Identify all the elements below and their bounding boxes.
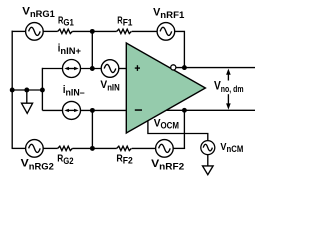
- wire: top rail, left corner to VnRG1: [12, 30, 26, 32]
- resistor RG2: [58, 146, 73, 150]
- wire: RG2 to RF2: [72, 147, 116, 149]
- op-amp U1 fully differential amplifier: [126, 43, 205, 133]
- node: +input node: [90, 66, 95, 71]
- svg-text:F1: F1: [123, 18, 133, 28]
- wire: RG1 to RF1: [72, 30, 116, 32]
- svg-text:nRF1: nRF1: [160, 9, 184, 20]
- svg-text:no, dm: no, dm: [221, 84, 244, 94]
- voltage noise source VnIN: [101, 60, 119, 78]
- wire: VnIN to amp +input: [119, 68, 127, 70]
- label VOCM: [154, 118, 179, 131]
- label inIN-: [63, 84, 85, 97]
- node: RG2/RF2 junction: [90, 146, 95, 151]
- wire: VnRG1 to RG1: [43, 30, 58, 32]
- svg-text:nIN+: nIN+: [60, 46, 81, 56]
- label VnCM: [220, 141, 243, 154]
- svg-text:G1: G1: [63, 18, 73, 28]
- wire: non-inverted output line: [166, 109, 255, 111]
- wire: RF1 to VnRF1: [132, 30, 157, 32]
- svg-text:nCM: nCM: [227, 144, 244, 154]
- noise source VnCM: [201, 141, 215, 155]
- annotation: Vno,dm up arrow: [226, 69, 231, 81]
- wire: VnRF2 to feedback vertical: [173, 147, 185, 149]
- svg-text:nIN: nIN: [107, 83, 120, 93]
- wire: bottom rail, left corner to VnRG2: [12, 147, 26, 149]
- svg-text:G2: G2: [63, 156, 73, 166]
- node: bus middle junction: [24, 88, 29, 93]
- op-amp - input marker: [135, 109, 142, 111]
- ground (VnCM): [203, 166, 214, 175]
- label inIN+: [58, 42, 81, 56]
- label VnRF1: [153, 7, 184, 21]
- current noise source inIN+: [63, 60, 81, 78]
- wire: inIN+ left lead: [42, 68, 62, 70]
- wire: inverted output line: [176, 67, 255, 69]
- ground (input bias network): [22, 90, 33, 113]
- resistor RF1: [117, 29, 132, 33]
- svg-text:F2: F2: [123, 155, 133, 165]
- svg-text:nRF2: nRF2: [159, 161, 184, 172]
- label VnRF2: [151, 158, 184, 172]
- label RG1: [58, 14, 74, 27]
- output inversion bubble: [171, 65, 176, 70]
- node: -output feedback junction: [182, 65, 187, 70]
- wire: VnRF1 right, corner down to -output: [175, 31, 185, 67]
- svg-text:OCM: OCM: [161, 120, 180, 130]
- svg-text:nIN–: nIN–: [66, 87, 85, 97]
- node: bus left junction: [10, 88, 15, 93]
- wire: feedback from +output down to VnRF2: [183, 110, 185, 148]
- wire: RF2 to VnRF2: [132, 147, 156, 149]
- label VnIN: [100, 79, 119, 93]
- node: top feedback junction: [90, 29, 95, 34]
- noise source VnRG1: [26, 23, 44, 41]
- wire: input bias vertical (left column): [41, 68, 43, 111]
- wire: top junction down to +input node: [91, 31, 93, 68]
- label Vno,dm: [214, 80, 244, 94]
- label VnRG1: [22, 6, 55, 20]
- svg-text:nRG1: nRG1: [30, 8, 55, 19]
- node: -input node: [90, 108, 95, 113]
- label RF1: [117, 14, 132, 27]
- label RG2: [57, 153, 73, 166]
- op-amp + input marker: [135, 65, 140, 71]
- wire: left vertical bus: [11, 31, 13, 149]
- wire: inIN- right lead to amp -input: [81, 109, 127, 111]
- wire: VnRG2 to RG2: [43, 147, 58, 149]
- resistor RF2: [117, 146, 132, 150]
- node: +output feedback junction: [182, 108, 187, 113]
- wire: ground bus: [12, 89, 42, 91]
- noise source VnRF1: [157, 23, 175, 41]
- node: bus right junction: [40, 88, 45, 93]
- label VnRG2: [21, 158, 54, 172]
- wire: -input node down to RG2/RF2 junction: [91, 110, 93, 148]
- annotation: Vno,dm down arrow: [226, 94, 231, 109]
- noise source VnRG2: [26, 140, 44, 158]
- resistor RG1: [58, 29, 73, 33]
- wire: VnCM to ground: [207, 155, 209, 166]
- noise source VnRF2: [156, 140, 174, 158]
- svg-text:nRG2: nRG2: [29, 160, 54, 171]
- wire: inIN- left lead: [42, 109, 62, 111]
- label RF2: [116, 152, 132, 165]
- wire: VOCM pin routing: [148, 121, 208, 141]
- current noise source inIN-: [63, 101, 81, 119]
- wire: inIN+ right lead to VnIN: [81, 68, 102, 70]
